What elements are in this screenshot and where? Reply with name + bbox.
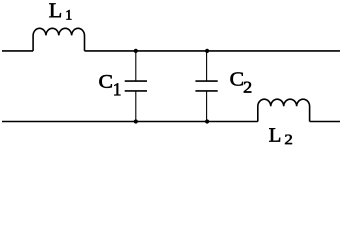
wire: top segment from L1 to right end: [85, 50, 341, 52]
wire: top-left segment: [2, 50, 33, 52]
label L1 letter L: [49, 3, 61, 17]
wire: bottom segment from L2 to right end: [310, 121, 340, 123]
junction dot: top node of C2: [205, 49, 209, 53]
label C1 letter C: [99, 75, 111, 88]
label L2 subscript 2: [285, 135, 292, 145]
label C1 subscript 1: [114, 83, 120, 95]
label C2 subscript 2: [244, 82, 251, 93]
label L1 subscript 1: [67, 10, 72, 19]
label L2 letter L: [269, 128, 280, 141]
inductor L2: [258, 99, 310, 121]
junction dot: bottom node of C2: [205, 119, 209, 123]
junction dot: bottom node of C1: [134, 119, 138, 123]
capacitor C2: [195, 51, 217, 122]
label C2 letter C: [230, 72, 242, 85]
capacitor C1: [125, 51, 147, 122]
wire: bottom-left segment to L2: [2, 121, 258, 123]
inductor L1: [33, 28, 84, 51]
junction dot: top node of C1: [134, 49, 138, 53]
